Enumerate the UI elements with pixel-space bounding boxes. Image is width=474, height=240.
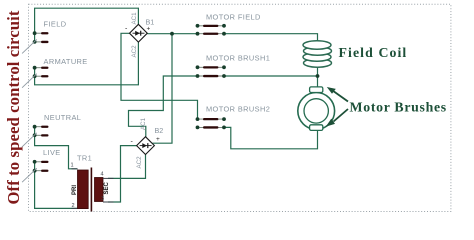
connector MOTOR FIELD: [196, 13, 261, 36]
wire B1 minus to MOTOR BRUSH2: [121, 33, 198, 119]
wire MOTOR FIELD to field coil: [224, 34, 318, 42]
terminal ARMATURE: [22, 57, 88, 88]
wire B2 minus to TR1 pin3: [108, 146, 137, 202]
svg-text:LIVE: LIVE: [43, 148, 61, 157]
svg-text:ARMATURE: ARMATURE: [44, 57, 88, 66]
pin 2: [72, 207, 78, 209]
svg-text:B2: B2: [155, 126, 164, 135]
bridge rectifier B1: [125, 12, 154, 58]
secondary winding SEC: [95, 178, 104, 202]
svg-text:AC2: AC2: [131, 45, 138, 58]
svg-text:AC2: AC2: [136, 156, 143, 169]
svg-text:TR1: TR1: [77, 154, 92, 163]
svg-text:FIELD: FIELD: [44, 20, 67, 29]
terminal NEUTRAL: [22, 113, 81, 147]
title: Off to speed control circuit: [4, 10, 23, 204]
svg-text:+: +: [147, 26, 151, 33]
wire ARMATURE to B1 AC2: [35, 42, 139, 85]
wire FIELD to B1 AC1: [35, 8, 139, 42]
svg-text:-: -: [131, 139, 134, 146]
pin 4: [103, 177, 114, 179]
wire MOTOR BRUSH2 to motor bottom brush: [224, 127, 318, 148]
svg-text:2: 2: [72, 203, 75, 209]
pin 1: [72, 168, 78, 170]
svg-text:1: 1: [71, 163, 74, 169]
core: [90, 168, 92, 212]
junction dot B1 plus node: [170, 32, 174, 36]
wire NEUTRAL to TR1 pin1: [35, 127, 78, 169]
arrow to top brush: [327, 87, 348, 102]
pin 3: [103, 201, 114, 203]
svg-text:AC1: AC1: [140, 117, 147, 130]
svg-text:NEUTRAL: NEUTRAL: [44, 113, 81, 122]
svg-text:Field Coil: Field Coil: [339, 45, 408, 60]
wire B2 AC1 to MOTOR BRUSH1: [129, 76, 198, 137]
connector MOTOR BRUSH2: [196, 105, 271, 130]
wire B1 plus to B2 plus: [153, 34, 173, 144]
field coil inductor: [303, 41, 332, 67]
motor bottom brush: [310, 125, 323, 131]
svg-text:MOTOR BRUSH2: MOTOR BRUSH2: [206, 105, 270, 114]
svg-text:PRI: PRI: [72, 185, 78, 195]
primary winding PRI: [78, 170, 89, 209]
svg-text:+: +: [156, 136, 160, 143]
svg-text:Off to speed control circuit: Off to speed control circuit: [4, 10, 23, 204]
wire field coil to motor top brush: [317, 66, 319, 87]
wire B2 AC2 to TR1 pin4: [108, 155, 146, 179]
svg-text:3: 3: [101, 196, 104, 202]
svg-text:MOTOR FIELD: MOTOR FIELD: [206, 13, 261, 22]
motor M1: [298, 87, 335, 131]
svg-text:MOTOR BRUSH1: MOTOR BRUSH1: [206, 54, 270, 63]
svg-text:-: -: [125, 26, 128, 33]
svg-text:AC1: AC1: [131, 12, 138, 25]
svg-text:SEC: SEC: [104, 181, 110, 194]
wire B1 plus to MOTOR FIELD: [147, 33, 196, 35]
svg-text:Motor Brushes: Motor Brushes: [350, 99, 447, 114]
svg-text:4: 4: [101, 172, 104, 178]
wire LIVE to TR1 pin2: [35, 162, 78, 209]
transformer TR1: [71, 154, 114, 212]
motor top brush: [310, 87, 323, 93]
connector MOTOR BRUSH1: [196, 54, 271, 78]
terminal LIVE: [22, 148, 61, 182]
terminal FIELD: [22, 20, 66, 54]
arrow to bottom brush: [326, 109, 348, 127]
bridge rectifier B2: [131, 117, 164, 168]
wire MOTOR BRUSH1 to motor top brush: [224, 75, 318, 77]
junction dot coil-brush node: [316, 74, 320, 78]
